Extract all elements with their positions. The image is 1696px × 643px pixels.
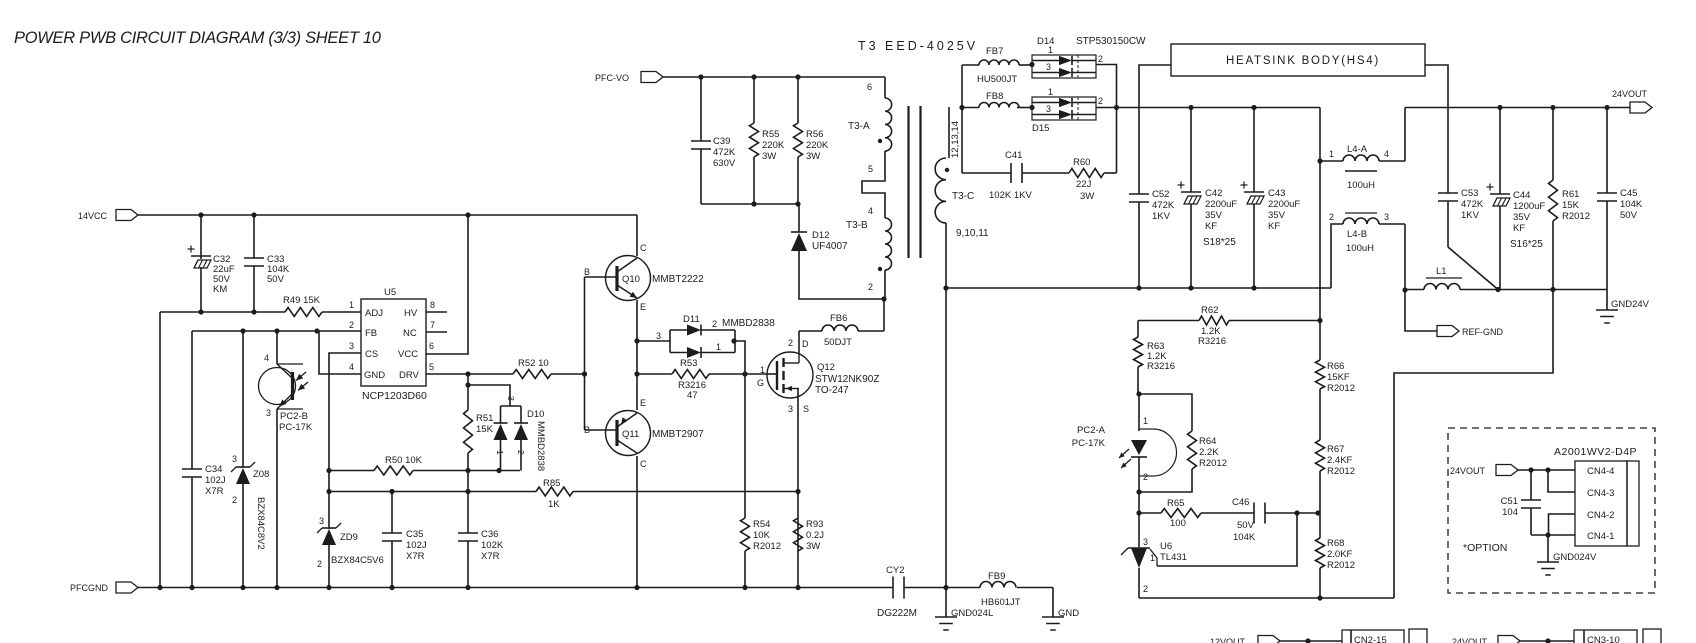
svg-text:A2001WV2-D4P: A2001WV2-D4P: [1554, 446, 1637, 458]
label C43: [1268, 188, 1300, 232]
svg-text:9,10,11: 9,10,11: [956, 228, 989, 239]
wire rect out down: [1116, 108, 1118, 174]
svg-text:*OPTION: *OPTION: [1463, 542, 1507, 554]
svg-text:FB9: FB9: [988, 571, 1005, 582]
wire R54 bottom: [744, 551, 746, 587]
svg-text:NCP1203D60: NCP1203D60: [362, 390, 427, 402]
capacitor C34: [182, 469, 202, 477]
svg-text:2200uF: 2200uF: [1205, 199, 1237, 210]
label C35: [406, 529, 427, 562]
connector CN3-10 box: [1574, 629, 1661, 643]
svg-text:472K: 472K: [1461, 199, 1484, 210]
svg-text:MMBD2838: MMBD2838: [722, 318, 775, 329]
svg-text:4: 4: [264, 353, 269, 363]
label Q12: [815, 362, 879, 396]
resistor R67: [1316, 440, 1325, 538]
svg-text:24VOUT: 24VOUT: [1452, 637, 1488, 643]
svg-text:REF-GND: REF-GND: [1462, 327, 1503, 337]
inductor L4-B: [1343, 213, 1379, 224]
resistor R52: [513, 370, 551, 379]
wire C42 column: [1190, 108, 1192, 289]
svg-text:2: 2: [1143, 584, 1148, 594]
label D10: [527, 409, 544, 420]
svg-text:D: D: [802, 339, 809, 349]
pin labels D15: [1046, 87, 1103, 114]
svg-text:VCC: VCC: [398, 349, 418, 360]
svg-text:CN2-15: CN2-15: [1354, 635, 1387, 643]
ground GND: [1042, 617, 1064, 630]
svg-text:2: 2: [1143, 472, 1148, 482]
junction dot R62: [1317, 318, 1322, 323]
wire CN4-2 link: [1549, 514, 1576, 535]
wire CN4-4 row: [1518, 469, 1575, 471]
zener ZD9: [317, 523, 341, 545]
label MMBD2838 D11: [722, 318, 775, 329]
wire FB-GND link: [319, 331, 361, 374]
svg-text:3W: 3W: [1080, 191, 1094, 202]
resistor R55: [750, 77, 759, 204]
ground GND024V option: [1537, 562, 1559, 575]
junction dots PFC rail: [698, 74, 800, 79]
svg-text:R65: R65: [1167, 498, 1184, 509]
svg-text:1: 1: [1329, 149, 1334, 159]
svg-text:L4-A: L4-A: [1347, 144, 1368, 155]
svg-text:CN4-4: CN4-4: [1587, 466, 1614, 477]
pin labels PC2-B: [264, 353, 271, 418]
wire U5 pin8 HV stub: [426, 311, 447, 313]
inductor L1: [1424, 278, 1462, 290]
wire R52 to bases: [551, 371, 587, 376]
wire D10 top bar: [501, 406, 522, 423]
svg-text:PC2-A: PC2-A: [1077, 425, 1106, 436]
wire PC2-A cathode: [1138, 457, 1140, 513]
svg-text:CN4-3: CN4-3: [1587, 488, 1614, 499]
wire gnd return path: [1394, 290, 1553, 599]
svg-text:R67: R67: [1327, 444, 1344, 455]
label NCP1203D60: [362, 390, 427, 402]
label R62: [1198, 305, 1226, 347]
svg-text:CN3-10: CN3-10: [1587, 635, 1620, 643]
resistor R93: [794, 518, 803, 551]
resistor R66: [1316, 321, 1325, 441]
svg-text:R68: R68: [1327, 538, 1344, 549]
svg-text:220K: 220K: [806, 140, 829, 151]
svg-text:1: 1: [1048, 45, 1053, 55]
polarity dot T3-B: [878, 267, 882, 271]
svg-text:DG222M: DG222M: [877, 608, 917, 619]
svg-text:C34: C34: [205, 464, 222, 475]
junction dot CN4 gnd: [1545, 532, 1550, 537]
junction dots CS column: [326, 468, 331, 494]
resistor R60: [1069, 169, 1104, 178]
wire CS filter row: [329, 491, 798, 493]
junction dots PC2-A node: [1136, 391, 1141, 515]
svg-text:R54: R54: [753, 519, 770, 530]
label R93: [806, 519, 824, 552]
wire sec gnd rail bottom: [904, 587, 1053, 589]
label S18*25: [1203, 237, 1236, 248]
svg-text:4: 4: [868, 206, 873, 216]
wire R65 row: [1139, 512, 1318, 514]
svg-text:PC2-B: PC2-B: [280, 411, 308, 422]
resistor R63: [1134, 321, 1143, 395]
svg-text:Q12: Q12: [817, 362, 835, 373]
svg-text:3: 3: [506, 396, 516, 401]
svg-text:2: 2: [1098, 54, 1103, 64]
pin labels Q12: [757, 338, 809, 414]
wire snubber bottom rail: [701, 203, 799, 205]
wire rail to L4-A: [1319, 108, 1321, 321]
capacitor C33: [244, 258, 264, 266]
svg-text:R2012: R2012: [1327, 466, 1355, 477]
label R67: [1327, 444, 1355, 477]
svg-text:KM: KM: [213, 284, 227, 295]
label GND24V: [1611, 299, 1650, 310]
wire FB9 out: [1052, 588, 1054, 618]
svg-text:KF: KF: [1268, 221, 1280, 232]
svg-text:24VOUT: 24VOUT: [1450, 466, 1486, 476]
resistor R64: [1188, 431, 1197, 469]
wire heatsink right pin: [1425, 65, 1448, 193]
junction dots snubber rail: [751, 201, 800, 206]
svg-text:KF: KF: [1513, 223, 1525, 234]
svg-text:12VOUT: 12VOUT: [1210, 637, 1246, 643]
polarity dot T3-C: [945, 168, 949, 172]
wire T3-A top: [884, 77, 886, 98]
svg-text:C36: C36: [481, 529, 498, 540]
label U6: [1160, 541, 1187, 563]
wire R64 box: [1139, 394, 1192, 492]
svg-text:S16*25: S16*25: [1510, 239, 1543, 250]
label CY2: [877, 565, 917, 619]
svg-text:R2012: R2012: [1327, 383, 1355, 394]
svg-text:3W: 3W: [762, 151, 776, 162]
wire R49 row: [160, 311, 361, 313]
wire PC2-B collector: [276, 331, 278, 364]
label R49: [283, 295, 321, 306]
wire C41 R60 row: [962, 172, 1117, 174]
svg-text:R2012: R2012: [1199, 458, 1227, 469]
label D14: [1037, 36, 1146, 47]
wire 24V output rail: [1405, 107, 1630, 109]
connector 14VCC: [78, 210, 138, 222]
wire C33 column: [253, 215, 255, 312]
winding T3-C: [935, 158, 946, 223]
junction dots CN4 top: [1528, 467, 1550, 472]
wire C53 diagonal: [1448, 201, 1498, 290]
wire C52 bottom: [1138, 202, 1140, 288]
label R52: [518, 358, 549, 369]
svg-text:C43: C43: [1268, 188, 1285, 199]
svg-text:R3216: R3216: [1198, 336, 1226, 347]
svg-text:50V: 50V: [1620, 210, 1638, 221]
svg-text:Q10: Q10: [622, 274, 640, 285]
svg-text:TO-247: TO-247: [815, 385, 849, 396]
labels CN4 pins: [1587, 466, 1614, 542]
label D12: [812, 230, 848, 252]
wire C32 column: [200, 215, 202, 312]
pin letters Q11: [584, 398, 647, 469]
wire D15 out: [1096, 107, 1117, 109]
svg-text:DRV: DRV: [399, 370, 420, 381]
connector CN2-15 box: [1342, 629, 1427, 643]
label T3-B: [846, 220, 868, 231]
svg-text:R2012: R2012: [1562, 211, 1590, 222]
wire PC2-B emitter: [276, 409, 278, 587]
svg-text:GND024V: GND024V: [1553, 552, 1597, 563]
svg-text:2.2K: 2.2K: [1199, 447, 1219, 458]
svg-text:1: 1: [349, 300, 354, 310]
wire L4-B out: [1405, 224, 1437, 331]
svg-text:GND: GND: [1058, 608, 1079, 619]
pin labels L4-B: [1329, 212, 1389, 222]
svg-text:5: 5: [429, 362, 434, 372]
capacitor C32: [188, 246, 212, 269]
polarity dot T3-A: [878, 139, 882, 143]
pin label 5: [868, 164, 873, 174]
label R51: [476, 413, 494, 435]
pin labels PC2-A: [1143, 416, 1148, 482]
junction dot rect out: [1114, 105, 1119, 110]
diode D15 block: [1029, 97, 1096, 120]
svg-text:KF: KF: [1205, 221, 1217, 232]
label FB9: [981, 571, 1021, 608]
title text: [14, 29, 382, 47]
svg-text:TL431: TL431: [1160, 552, 1187, 563]
junction dots DRV column: [465, 371, 470, 387]
svg-text:15K: 15K: [1562, 200, 1580, 211]
label Q11: [622, 429, 704, 440]
capacitor C42: [1178, 182, 1202, 205]
connector 24VOUT option: [1450, 465, 1518, 477]
connector 12VOUT bottom: [1210, 636, 1280, 643]
svg-text:C44: C44: [1513, 190, 1530, 201]
wire D14 out: [1096, 65, 1117, 108]
wire Q12 drain: [798, 331, 800, 353]
svg-text:U5: U5: [384, 287, 396, 298]
pin labels Z08: [232, 454, 237, 505]
svg-text:NC: NC: [403, 328, 417, 339]
svg-text:HB601JT: HB601JT: [981, 597, 1021, 608]
svg-text:R55: R55: [762, 129, 779, 140]
wire U5 pin5 DRV: [426, 373, 513, 375]
label BZX84C8V2: [255, 497, 266, 550]
svg-text:1: 1: [716, 342, 721, 352]
svg-text:X7R: X7R: [406, 551, 425, 562]
svg-text:R2012: R2012: [1327, 560, 1355, 571]
svg-text:2.0KF: 2.0KF: [1327, 549, 1353, 560]
svg-text:B: B: [584, 267, 590, 277]
label L4-B: [1346, 229, 1374, 254]
wire ZD9 bottom: [328, 545, 330, 587]
label R66: [1327, 361, 1355, 394]
wire D11 row: [637, 331, 670, 341]
svg-text:D12: D12: [812, 230, 829, 241]
connector PFC-VO: [595, 72, 663, 84]
wire T3-C top: [948, 107, 950, 158]
label GND: [1058, 608, 1079, 619]
wire Z08 column: [242, 331, 244, 587]
label C52: [1152, 189, 1175, 222]
svg-text:GND024L: GND024L: [951, 608, 993, 619]
inductor FB8: [979, 103, 1019, 108]
label C34: [205, 464, 226, 497]
svg-text:2200uF: 2200uF: [1268, 199, 1300, 210]
zener Z08: [231, 462, 255, 484]
resistor R49: [285, 308, 322, 317]
capacitor CY2: [893, 577, 904, 599]
svg-text:102J: 102J: [205, 475, 226, 486]
svg-text:100uH: 100uH: [1346, 243, 1374, 254]
wire 14VCC rail: [138, 214, 637, 216]
svg-text:CN4-2: CN4-2: [1587, 510, 1614, 521]
resistor R85: [536, 487, 573, 496]
svg-text:102K 1KV: 102K 1KV: [989, 190, 1032, 201]
svg-text:3: 3: [1046, 62, 1051, 72]
wire R62 row: [1138, 320, 1320, 322]
svg-text:C41: C41: [1005, 150, 1022, 161]
svg-text:100uH: 100uH: [1347, 180, 1375, 191]
wire T3-B bottom: [884, 270, 886, 299]
svg-text:L1: L1: [1436, 266, 1447, 277]
transistor Q10: [606, 256, 651, 301]
svg-text:1200uF: 1200uF: [1513, 201, 1545, 212]
pin label 6: [867, 82, 872, 92]
capacitor C52: [1129, 194, 1149, 202]
svg-text:2: 2: [788, 338, 793, 348]
svg-text:2.4KF: 2.4KF: [1327, 455, 1353, 466]
label GND024V option: [1553, 552, 1597, 563]
svg-text:50DJT: 50DJT: [824, 337, 852, 348]
wire FB row: [192, 330, 361, 332]
junction dots R49 row: [198, 309, 256, 314]
transformer core: [909, 106, 921, 258]
shunt regulator U6 TL431: [1121, 548, 1157, 568]
svg-text:14VCC: 14VCC: [78, 211, 108, 221]
label C44: [1513, 190, 1545, 234]
svg-text:PFC-VO: PFC-VO: [595, 73, 629, 83]
wire base column: [584, 277, 586, 430]
opto PC2-B phototransistor: [259, 364, 309, 409]
pin numbers U5 left: [349, 300, 354, 372]
wire Q10 base: [585, 276, 618, 278]
wire C44 column: [1499, 108, 1501, 290]
op-amp U5 box: [361, 299, 426, 386]
svg-text:102J: 102J: [406, 540, 427, 551]
svg-text:FB7: FB7: [986, 46, 1003, 57]
wire fb bottom rail: [1139, 597, 1394, 599]
svg-text:HV: HV: [404, 308, 418, 319]
label MMBD2838 D10: [535, 421, 546, 471]
label T3-A: [848, 121, 870, 132]
label 9,10,11: [956, 228, 989, 239]
junction dots R50 row: [465, 468, 501, 473]
svg-text:6: 6: [867, 82, 872, 92]
svg-text:C52: C52: [1152, 189, 1169, 200]
label C42: [1205, 188, 1237, 232]
label L4-A: [1347, 144, 1375, 191]
label A2001WV2-D4P: [1554, 446, 1637, 458]
svg-text:7: 7: [430, 320, 435, 330]
svg-text:1: 1: [495, 450, 505, 455]
svg-text:E: E: [640, 398, 646, 408]
label Z08: [253, 469, 269, 480]
wire C45 column: [1606, 108, 1608, 290]
label R55: [762, 129, 785, 162]
label FB6: [824, 313, 852, 348]
svg-text:1: 1: [1143, 416, 1148, 426]
svg-text:35V: 35V: [1513, 212, 1531, 223]
capacitor C41: [1011, 163, 1022, 183]
diode D12: [791, 232, 807, 251]
svg-text:104K: 104K: [1233, 532, 1256, 543]
svg-text:35V: 35V: [1268, 210, 1286, 221]
resistor R65: [1161, 509, 1201, 518]
label U5 pins: [364, 308, 420, 381]
wire secondary gnd rail: [946, 287, 1331, 289]
svg-text:C51: C51: [1501, 496, 1518, 507]
wire PC2-A anode: [1138, 394, 1140, 431]
label R68: [1327, 538, 1355, 571]
svg-text:472K: 472K: [713, 147, 736, 158]
capacitor C43: [1241, 182, 1265, 205]
svg-text:D10: D10: [527, 409, 544, 420]
label R60: [1073, 157, 1094, 202]
wire L4-B row: [1331, 224, 1405, 288]
diode D10a: [494, 423, 508, 440]
svg-text:MMBD2838: MMBD2838: [535, 421, 546, 471]
wire D10 anodes: [501, 440, 522, 471]
svg-text:0.2J: 0.2J: [806, 530, 824, 541]
junction dot R53 row: [742, 371, 747, 376]
svg-text:3: 3: [656, 331, 661, 341]
resistor R68: [1316, 538, 1325, 598]
label C33: [267, 254, 290, 285]
resistor R54: [741, 518, 750, 551]
svg-text:2: 2: [516, 450, 526, 455]
svg-text:STW12NK90Z: STW12NK90Z: [815, 374, 879, 385]
svg-text:G: G: [757, 378, 764, 388]
svg-text:2: 2: [232, 495, 237, 505]
svg-text:15KF: 15KF: [1327, 372, 1350, 383]
pin label 2: [868, 282, 873, 292]
svg-text:22J: 22J: [1076, 179, 1092, 190]
wire U6 anode: [1138, 568, 1140, 598]
svg-text:L4-B: L4-B: [1347, 229, 1367, 240]
svg-text:T3-A: T3-A: [848, 121, 870, 132]
label ZD9: [340, 532, 358, 543]
svg-text:R85: R85: [543, 478, 560, 489]
svg-text:X7R: X7R: [205, 486, 224, 497]
resistor R62: [1199, 316, 1229, 325]
junction dot fb bottom: [1317, 595, 1322, 600]
svg-text:D15: D15: [1032, 123, 1049, 134]
pin labels D10: [495, 396, 526, 455]
label OPTION: [1463, 542, 1507, 554]
svg-text:3: 3: [319, 516, 324, 526]
svg-text:R3216: R3216: [1147, 361, 1175, 372]
wire T3 tap jog: [862, 151, 885, 218]
svg-text:CY2: CY2: [886, 565, 904, 576]
wire FB8 row: [962, 107, 1031, 109]
winding T3-A: [885, 98, 892, 151]
connector 24VOUT: [1612, 89, 1652, 113]
heatsink body box: [1171, 44, 1425, 76]
svg-text:PC-17K: PC-17K: [279, 422, 313, 433]
junction dots 14VCC rail: [198, 212, 470, 217]
wire T3-C bottom: [945, 223, 947, 587]
label R61: [1562, 189, 1590, 222]
